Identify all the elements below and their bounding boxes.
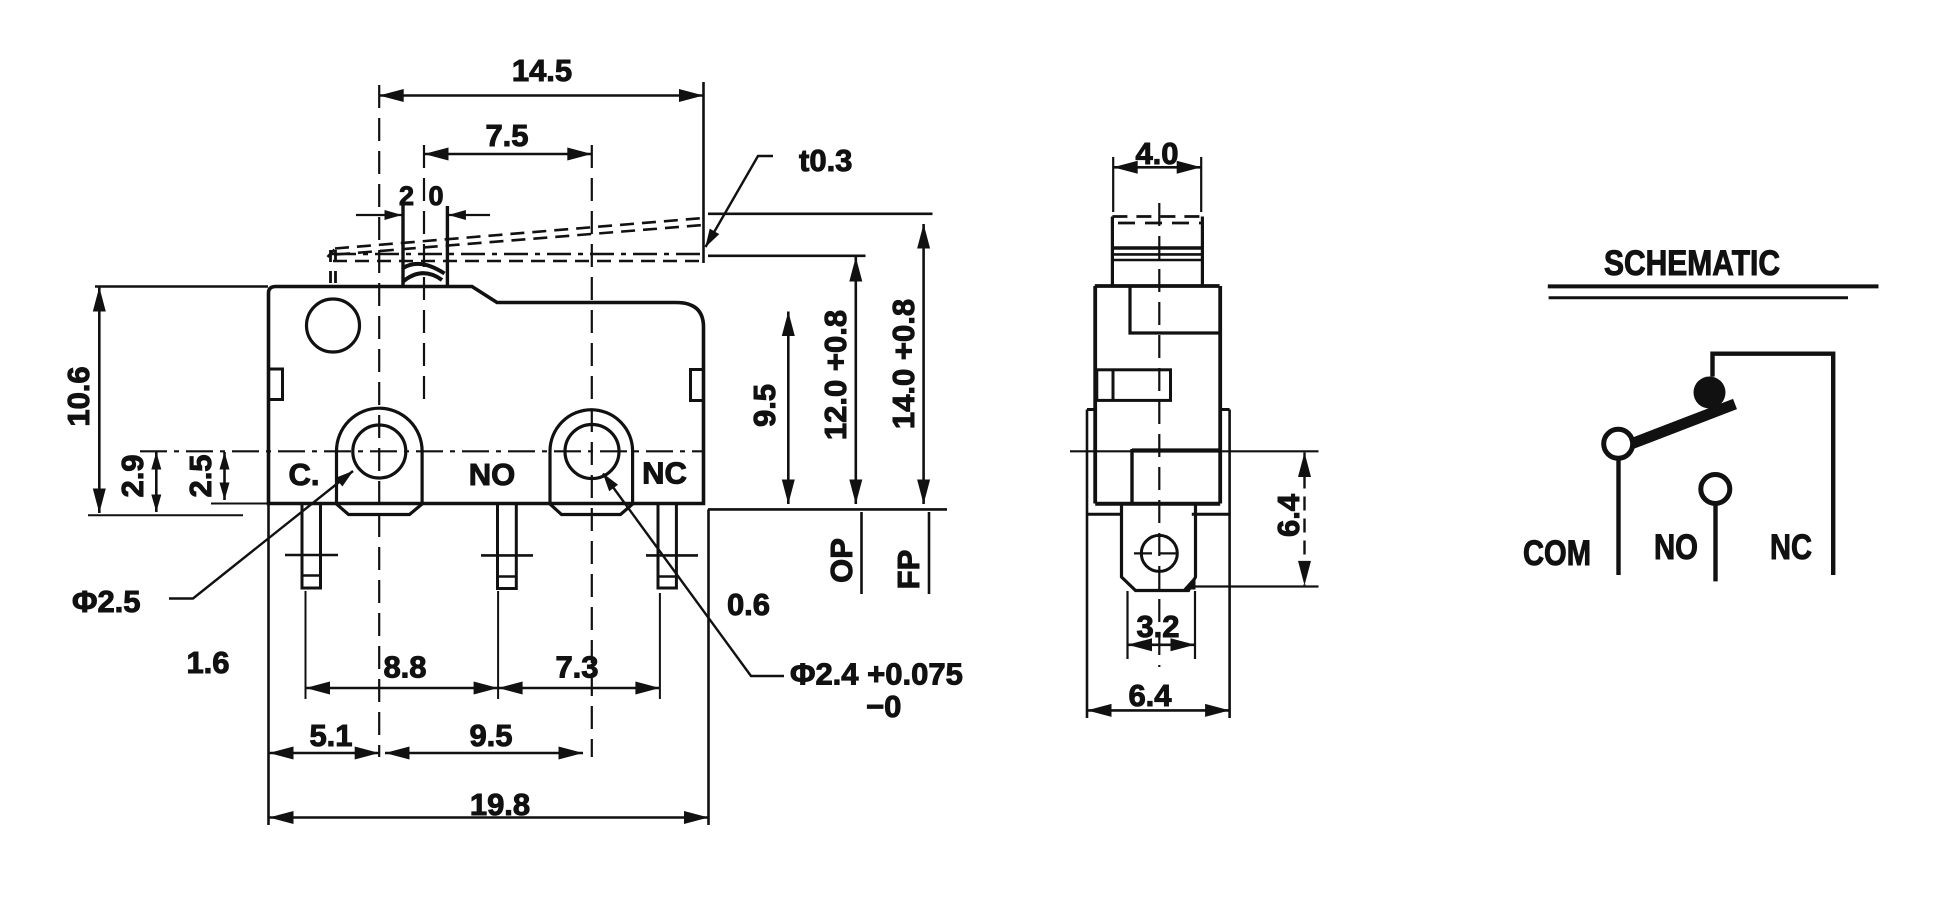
front view: switch body outline: [269, 287, 704, 504]
OP reference tick: [860, 512, 863, 594]
dimension 7.5: [424, 153, 592, 156]
front view: NC mounting hole: [565, 425, 619, 479]
svg-text:NO: NO: [1654, 528, 1698, 567]
schematic: COM wire: [1616, 459, 1620, 576]
svg-text:14.5: 14.5: [512, 53, 572, 88]
extension line: lever tip x=704.5: [702, 82, 705, 263]
dimension 10.6: [98, 287, 101, 513]
side view: inner plunger box: [1132, 448, 1220, 452]
svg-text:Φ2.5: Φ2.5: [72, 584, 141, 619]
lever: spring coil arc 2: [403, 273, 443, 282]
svg-text:9.5: 9.5: [469, 718, 512, 753]
callout t0.3 leader: [706, 156, 774, 247]
svg-text:COM: COM: [1523, 534, 1591, 573]
dimension 14.0 +0.8: [922, 224, 925, 504]
front view: C pin cross line: [285, 554, 338, 557]
svg-text:9.5: 9.5: [747, 384, 782, 427]
lever: free position top edge (dashed): [335, 218, 704, 249]
extension line below C pin: [305, 591, 307, 699]
dimension 19.8: [269, 816, 709, 819]
side view: button top (hidden line): [1112, 215, 1202, 218]
svg-text:6.4: 6.4: [1271, 493, 1306, 537]
svg-text:Φ2.4 +0.075: Φ2.4 +0.075: [790, 657, 963, 692]
dimension 7.3: [498, 687, 660, 690]
schematic title underline 1: [1548, 284, 1879, 288]
construction line: lever pivot centerline x=379: [378, 85, 380, 757]
side view: dimension 6.4 vertical: [1303, 453, 1305, 586]
front view: right side notch: [691, 370, 704, 401]
svg-text:OP: OP: [824, 538, 859, 583]
extension line below NO pin: [497, 591, 499, 699]
lever: spring coil arc 1: [403, 264, 445, 274]
svg-text:19.8: 19.8: [470, 787, 530, 822]
side view: side latch rectangle: [1097, 370, 1171, 401]
FP reference tick: [928, 512, 931, 594]
svg-text:FP: FP: [891, 550, 926, 590]
front view: NO pin cross line: [481, 554, 533, 557]
front view: NC terminal lug: [550, 410, 633, 515]
front view: horizontal centerline through holes: [140, 450, 703, 452]
side view: vertical centerline: [1158, 203, 1160, 667]
schematic: moving arm: [1631, 404, 1735, 444]
side view: left flange: [1087, 408, 1095, 411]
construction line: plunger centerline x=424: [423, 145, 425, 400]
side view: body shoulder: [1095, 284, 1220, 288]
lever: left end tick: [328, 250, 335, 258]
dimension 12.0 +0.8: [854, 257, 857, 504]
svg-text:2: 2: [399, 181, 414, 211]
side view: dimension 3.2: [1126, 591, 1128, 659]
construction line: NC hole centerline x=592: [591, 145, 593, 757]
front view: C terminal lug: [337, 408, 423, 514]
side view: dimension 6.4 bottom: [1087, 709, 1230, 712]
schematic: NC top bracket wire: [1713, 354, 1834, 575]
schematic title underline 2: [1549, 296, 1848, 299]
dimension 2.9: [155, 452, 158, 512]
dimension 9.5 (hole spacing): [385, 752, 583, 755]
svg-text:3.2: 3.2: [1136, 609, 1179, 644]
svg-text:t0.3: t0.3: [799, 143, 852, 178]
side view: upper reference line y=451: [1070, 450, 1319, 452]
svg-text:14.0 +0.8: 14.0 +0.8: [886, 299, 921, 429]
side view: button right edge: [1201, 217, 1204, 287]
lever: pressed position bottom edge (dashed): [333, 260, 702, 263]
dimension 2.5: [223, 452, 226, 500]
svg-text:NO: NO: [469, 457, 516, 492]
side view: button band lines: [1112, 246, 1202, 249]
svg-text:NC: NC: [1770, 528, 1812, 567]
lever: plunger right edge: [446, 206, 449, 287]
svg-text:NC: NC: [642, 456, 687, 491]
schematic: NO contact circle: [1701, 475, 1730, 504]
lever: left end loop (dashed verticals): [329, 250, 332, 286]
front view: C pin: [302, 504, 321, 589]
lever: free position bottom edge (dashed): [336, 225, 704, 255]
dimension 8.8: [306, 687, 499, 690]
schematic: COM contact circle: [1604, 429, 1633, 458]
side view: body bottom: [1095, 502, 1220, 506]
extension line: body right edge extended down: [707, 509, 710, 825]
side view: dimension 4.0: [1113, 166, 1201, 169]
svg-text:1.6: 1.6: [186, 645, 229, 680]
side view: button left edge: [1111, 217, 1114, 287]
dimension 2.0: [356, 214, 402, 216]
front view: NC pin: [658, 504, 676, 589]
side view: right flange: [1220, 408, 1229, 411]
svg-text:−0: −0: [866, 689, 901, 724]
svg-text:4.0: 4.0: [1135, 136, 1178, 171]
dimension 14.5: [379, 94, 703, 97]
side view: lower reference line y=586.5: [1189, 585, 1319, 587]
svg-text:2.5: 2.5: [183, 454, 218, 497]
lever: plunger left edge: [401, 205, 404, 287]
seating plane reference line: [708, 508, 947, 511]
extension line below NC pin: [659, 593, 661, 699]
dimension 5.1: [269, 752, 379, 755]
side view: terminal hole: [1141, 535, 1177, 571]
svg-text:5.1: 5.1: [309, 718, 352, 753]
schematic: NC contact dot: [1694, 377, 1726, 409]
svg-text:8.8: 8.8: [383, 650, 426, 685]
side view: body right edge: [1218, 286, 1222, 504]
lever tip reference line (operating position): [708, 255, 866, 258]
dimension 9.5 (OP height): [787, 312, 790, 505]
side view: body left edge: [1093, 286, 1097, 504]
front view: top edge extension line to the left: [95, 285, 268, 288]
front view: lug bottom reference line: [88, 514, 243, 516]
front view: top-left mounting circle: [307, 299, 360, 352]
svg-text:2.9: 2.9: [115, 454, 150, 497]
front view: C mounting hole: [353, 425, 406, 478]
extension line: body left edge extended down: [267, 504, 270, 826]
front view: NC pin cross line: [646, 554, 698, 557]
front view: NO pin: [498, 504, 517, 589]
schematic: NO wire: [1713, 505, 1717, 582]
side view: terminal lug: [1122, 504, 1196, 591]
svg-text:12.0 +0.8: 12.0 +0.8: [818, 310, 853, 440]
svg-text:SCHEMATIC: SCHEMATIC: [1604, 244, 1780, 283]
front view: left side notch: [269, 369, 283, 400]
side view: inner step: [1130, 286, 1220, 333]
svg-text:C.: C.: [289, 457, 320, 492]
lever tip reference line (free position): [708, 213, 933, 216]
svg-text:0: 0: [428, 181, 443, 211]
svg-text:6.4: 6.4: [1128, 678, 1172, 713]
front view: body bottom extension line (left): [211, 503, 268, 505]
svg-text:10.6: 10.6: [61, 366, 96, 426]
lever: pressed position top edge (dash-dot): [332, 253, 704, 256]
svg-text:7.3: 7.3: [555, 650, 598, 685]
svg-text:0.6: 0.6: [727, 587, 770, 622]
svg-text:7.5: 7.5: [485, 118, 528, 153]
